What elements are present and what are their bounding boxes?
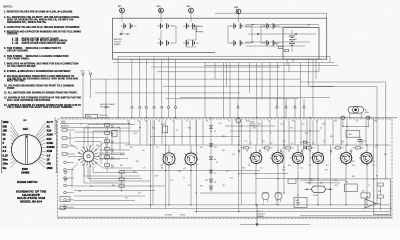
svg-text:Q1: Q1 xyxy=(161,168,163,170)
svg-text:X100: X100 xyxy=(47,133,54,137)
svg-text:C6: C6 xyxy=(176,130,178,132)
contact circle 4 xyxy=(64,184,74,187)
wire y67 xyxy=(151,66,280,68)
battery BT4a xyxy=(231,23,247,29)
svg-text:R28: R28 xyxy=(188,128,191,130)
wire v x284 xyxy=(283,120,285,193)
svg-text:R83: R83 xyxy=(205,180,208,182)
svg-text:R88: R88 xyxy=(352,176,355,178)
svg-text:R50: R50 xyxy=(325,170,328,172)
svg-text:BT2: BT2 xyxy=(157,6,160,8)
wire pcb v x232 xyxy=(231,120,233,145)
svg-text:GROUPS:: GROUPS: xyxy=(7,34,18,36)
label bottom center xyxy=(165,214,186,217)
wire bus y209 xyxy=(58,208,393,210)
dual diode pair 1 xyxy=(262,192,269,205)
wire drop x139 xyxy=(139,57,141,105)
svg-text:C24: C24 xyxy=(334,180,337,182)
switch press-to-test xyxy=(86,114,98,118)
battery sub-box xyxy=(283,28,319,60)
wire pcb v x182 xyxy=(181,120,183,145)
svg-text:R59: R59 xyxy=(335,185,338,187)
svg-text:C11: C11 xyxy=(300,168,303,170)
wire bt1 drop xyxy=(121,30,123,34)
svg-text:R34: R34 xyxy=(120,154,123,156)
svg-text:C7: C7 xyxy=(270,133,272,135)
rotary switch labels right xyxy=(35,120,55,170)
battery BT1 minus lead xyxy=(119,33,130,35)
wire Q leg x191 xyxy=(190,165,192,205)
wire bus y224 xyxy=(240,224,310,226)
svg-text:R80: R80 xyxy=(112,185,115,187)
svg-text:C18: C18 xyxy=(308,165,311,167)
junction circle right of meter xyxy=(367,116,370,119)
svg-text:560: 560 xyxy=(133,171,136,173)
resistor R55 xyxy=(346,131,360,138)
svg-text:15m: 15m xyxy=(3,162,9,166)
resistor above Q x358 xyxy=(353,147,364,149)
wire pcb v x162 xyxy=(161,120,163,145)
wire bt5 col xyxy=(261,26,265,43)
wire left y196 xyxy=(74,195,145,197)
resistor bottom left 2 xyxy=(60,206,65,209)
svg-text:AC V: AC V xyxy=(47,120,54,124)
wire Q leg x346 xyxy=(345,165,347,205)
svg-text:D4: D4 xyxy=(214,131,216,133)
meter M xyxy=(348,106,369,113)
terminal arrow x175 xyxy=(174,105,177,118)
notes text block xyxy=(3,5,82,110)
svg-text:6: 6 xyxy=(96,124,97,126)
svg-text:PRESS TO: PRESS TO xyxy=(100,115,109,117)
svg-text:C12: C12 xyxy=(375,147,378,149)
svg-text:Q5: Q5 xyxy=(292,155,294,157)
svg-text:R56: R56 xyxy=(303,141,306,143)
wire drop2 x256 xyxy=(256,63,258,118)
svg-text:R35: R35 xyxy=(136,161,139,163)
svg-text:27: 27 xyxy=(368,185,370,187)
wire left y186 xyxy=(74,185,165,187)
wire pcb v x147 xyxy=(146,120,148,145)
svg-text:R46: R46 xyxy=(242,168,245,170)
wire v x310 xyxy=(309,120,311,185)
svg-text:IC1: IC1 xyxy=(366,197,369,199)
svg-text:30K: 30K xyxy=(111,159,114,161)
wire pcb v x250 xyxy=(249,120,251,145)
svg-text:R26: R26 xyxy=(134,133,137,135)
diode ZD3 xyxy=(209,157,213,160)
svg-text:2N: 2N xyxy=(288,151,290,153)
svg-text:R11: R11 xyxy=(111,125,114,127)
wire v x385 xyxy=(385,118,387,179)
battery BT5a xyxy=(264,23,280,29)
contact circle 5 xyxy=(64,191,74,194)
svg-text:R33: R33 xyxy=(305,133,308,135)
wire pcb v x317 xyxy=(316,120,318,145)
wire Q leg x298 xyxy=(297,165,299,205)
svg-text:R74: R74 xyxy=(288,165,291,167)
wire drop x131 xyxy=(131,59,133,104)
wire drop2 x223 xyxy=(222,63,224,118)
wire y145 xyxy=(125,144,390,146)
wire v x165 xyxy=(165,120,167,209)
rotary OHM label xyxy=(21,167,29,175)
resistor R30 xyxy=(161,124,168,133)
resistor R61 xyxy=(361,193,370,198)
svg-text:P1: P1 xyxy=(376,176,378,178)
svg-text:R52: R52 xyxy=(352,161,355,163)
svg-text:R57: R57 xyxy=(308,183,311,185)
svg-text:3 - 99 PARTS OTHER THAN CI: 3 - 99 PARTS OTHER THAN CIRCUIT BOARD xyxy=(12,42,66,45)
resistor R201 xyxy=(276,44,283,48)
svg-text:R27: R27 xyxy=(152,128,155,130)
svg-text:X1K: X1K xyxy=(47,137,52,141)
svg-text:50m: 50m xyxy=(3,158,9,162)
svg-text:C10: C10 xyxy=(260,168,263,170)
svg-text:R71: R71 xyxy=(226,171,229,173)
wire drop2 x289 xyxy=(288,63,290,72)
svg-text:R12: R12 xyxy=(111,133,114,135)
wire v x330 xyxy=(330,145,332,205)
terminal arrow x131 xyxy=(131,105,134,118)
resistor left col 2 xyxy=(62,137,75,139)
svg-text:C9: C9 xyxy=(156,147,158,149)
wire Q leg x278 xyxy=(277,165,279,205)
wire bt45 join xyxy=(246,26,253,43)
wire drop2 x277 xyxy=(277,63,279,106)
wire Q leg x169 xyxy=(168,165,170,205)
svg-text:15: 15 xyxy=(3,137,6,141)
battery BT2b xyxy=(157,40,173,46)
resistor chain B5 xyxy=(105,156,114,164)
resistor above Q x338 xyxy=(333,147,344,149)
label test prod xyxy=(251,122,258,128)
svg-text:TEST: TEST xyxy=(251,122,255,124)
svg-text:C7: C7 xyxy=(316,121,318,123)
svg-text:25K: 25K xyxy=(111,151,114,153)
battery BT5b xyxy=(264,40,280,46)
wire wafer right y150 xyxy=(99,149,130,151)
battery test box xyxy=(294,197,307,207)
diode ZD4 xyxy=(209,170,213,173)
svg-text:R45: R45 xyxy=(222,150,225,152)
resistor above Q x246 xyxy=(241,147,252,149)
svg-text:5m: 5m xyxy=(3,166,7,170)
dual diode pair 2 xyxy=(275,192,282,205)
rotary switch labels left xyxy=(3,120,19,170)
svg-text:BOARD: BOARD xyxy=(114,43,121,46)
svg-text:35K: 35K xyxy=(111,167,114,169)
capacitor mark x267 xyxy=(259,142,273,154)
svg-text:R1: R1 xyxy=(276,44,278,46)
wire bus y65 xyxy=(205,64,338,66)
wire pcb v x129 xyxy=(128,120,130,145)
svg-text:R68: R68 xyxy=(178,171,181,173)
transistor Q2 xyxy=(183,150,198,169)
wire v x196 xyxy=(195,120,197,211)
svg-text:BT1: BT1 xyxy=(118,6,121,8)
svg-text:THE FRONT PANEL.: THE FRONT PANEL. xyxy=(7,57,30,60)
svg-text:500: 500 xyxy=(3,124,8,128)
wire bus y62 xyxy=(113,62,334,64)
wire bt2 link xyxy=(158,30,161,39)
wire pcb v x333 xyxy=(332,120,334,145)
wire bus y212 xyxy=(195,211,390,213)
svg-text:X10K: X10K xyxy=(47,141,54,145)
wire wafer feed y137 xyxy=(75,138,106,161)
contact circle 2 xyxy=(64,168,74,171)
wire y170 xyxy=(120,170,260,172)
wire y82 xyxy=(300,82,386,118)
wire wafer feed y123 xyxy=(60,123,130,125)
svg-text:1500: 1500 xyxy=(47,166,53,170)
svg-text:Q6: Q6 xyxy=(312,155,314,157)
wire bus y56 xyxy=(118,57,330,63)
wire v x238 xyxy=(238,120,240,211)
wire y178 xyxy=(300,178,374,180)
terminal arrow x139 xyxy=(139,105,142,118)
wire drop2 x313 xyxy=(312,59,314,118)
wire left y200 xyxy=(74,200,135,202)
potentiometer hexagon xyxy=(304,186,333,197)
svg-text:R43 1K: R43 1K xyxy=(313,195,319,197)
rotary OFF label xyxy=(23,120,29,131)
svg-text:BT4: BT4 xyxy=(235,6,238,9)
transistor Q7 xyxy=(338,150,352,166)
wire y71 xyxy=(157,63,319,72)
wire pcb v x278 xyxy=(277,120,279,145)
svg-text:OHMS: OHMS xyxy=(21,170,29,174)
rotary left bracket xyxy=(1,121,2,173)
svg-text:R77: R77 xyxy=(326,165,329,167)
svg-text:C20: C20 xyxy=(372,165,375,167)
wire pcb v x174 xyxy=(173,120,175,145)
contact circle 6 xyxy=(64,199,74,202)
wire bus y205 xyxy=(60,204,390,206)
wire pcb v x196 xyxy=(195,120,197,145)
svg-text:05: 05 xyxy=(356,121,358,123)
svg-text:REFERENCE NO., WHICH ARE 5%.: REFERENCE NO., WHICH ARE 5%. xyxy=(7,21,47,24)
terminal V xyxy=(89,71,92,99)
transistor Q6 xyxy=(310,150,324,166)
resistor R202 xyxy=(284,49,289,51)
wire Q leg x318 xyxy=(317,165,319,205)
junction ring xyxy=(236,118,241,123)
svg-text:C8: C8 xyxy=(320,128,322,130)
svg-text:D7: D7 xyxy=(214,173,216,175)
wire pcb v x313 xyxy=(312,120,314,145)
svg-text:D6: D6 xyxy=(214,159,216,161)
svg-text:R14: R14 xyxy=(246,121,249,123)
resistor chain B4 xyxy=(105,148,114,156)
wire Q top x367 xyxy=(366,145,368,153)
svg-text:C1: C1 xyxy=(127,121,129,123)
diode ZD6 xyxy=(209,186,213,189)
resistor chain A2 xyxy=(119,178,124,185)
wire y79 xyxy=(91,78,300,80)
wire pcb v x257 xyxy=(256,120,258,145)
label wire codes xyxy=(100,103,116,108)
svg-text:R3: R3 xyxy=(145,121,147,123)
svg-text:R58: R58 xyxy=(320,183,323,185)
wire row2 xyxy=(246,26,311,28)
wire y86 xyxy=(310,87,377,118)
svg-text:R41: R41 xyxy=(130,147,133,149)
diode ZD2 xyxy=(209,144,213,147)
svg-text:220: 220 xyxy=(232,154,235,156)
svg-text:Q4: Q4 xyxy=(271,155,273,157)
svg-text:R14: R14 xyxy=(111,149,114,151)
bracket connector xyxy=(192,26,203,32)
resistor chain A3 xyxy=(119,185,124,192)
wire pcb v x140 xyxy=(139,120,141,145)
wire wafer feed y127 xyxy=(60,128,120,151)
terminal arrow r x286 xyxy=(285,99,288,118)
wire midrow xyxy=(248,33,316,35)
wire drop x175 xyxy=(175,59,177,104)
svg-text:TO THE CIRCUIT BOARD.: TO THE CIRCUIT BOARD. xyxy=(7,65,36,68)
wire drop2 x284 xyxy=(283,63,285,118)
wire pcb v x289 xyxy=(288,120,290,145)
svg-text:Q1: Q1 xyxy=(163,155,165,157)
chassis ground arrow xyxy=(255,205,258,227)
svg-text:C28: C28 xyxy=(78,191,81,193)
svg-text:BT3: BT3 xyxy=(187,6,190,8)
wire drop x118 xyxy=(117,57,119,105)
wire pcb top bus xyxy=(60,117,397,119)
resistor above Q x267 xyxy=(262,147,273,149)
svg-text:R65: R65 xyxy=(120,165,123,167)
circuit board outline xyxy=(58,119,393,219)
wire drop x146 xyxy=(145,59,147,104)
svg-text:Q2: Q2 xyxy=(185,155,187,157)
svg-text:R94: R94 xyxy=(90,186,93,188)
svg-text:11. ALL SWITCHES ARE SHOWN AS: 11. ALL SWITCHES ARE SHOWN AS VIEWED FRO… xyxy=(4,92,78,95)
svg-text:50: 50 xyxy=(3,133,6,137)
svg-text:R38: R38 xyxy=(200,186,203,188)
wire pcb v x239 xyxy=(238,120,240,145)
svg-text:150: 150 xyxy=(3,129,8,133)
terminal B xyxy=(157,6,163,22)
svg-text:ZD1: ZD1 xyxy=(214,147,217,149)
wire v x106 xyxy=(105,79,108,118)
resistor chain B6 xyxy=(105,164,114,172)
svg-text:1500: 1500 xyxy=(22,167,28,171)
contact circle 3 xyxy=(64,177,74,180)
wire y86b xyxy=(163,85,334,87)
wire v x153 xyxy=(152,120,154,205)
svg-text:Q3: Q3 xyxy=(250,155,252,157)
svg-text:R52: R52 xyxy=(262,141,265,143)
svg-text:CW; A VIEW FROM THE SHAFT SIDE: CW; A VIEW FROM THE SHAFT SIDE OF EACH T… xyxy=(7,106,74,109)
svg-text:15K: 15K xyxy=(111,135,114,137)
wire y131 xyxy=(230,130,320,132)
svg-text:3. CAPACITOR VALUES ARE IN uF: 3. CAPACITOR VALUES ARE IN uF UNLESS MAR… xyxy=(4,26,80,29)
junction circle left of meter xyxy=(341,116,344,119)
svg-text:POINT.: POINT. xyxy=(7,88,15,90)
terminal arrow r x238 xyxy=(237,99,240,118)
wires wafer web xyxy=(68,125,142,189)
battery board label xyxy=(114,38,123,46)
svg-text:D8: D8 xyxy=(214,182,216,184)
resistor bottom left 1 xyxy=(60,197,70,202)
box right xyxy=(374,179,391,215)
svg-text:X10: X10 xyxy=(47,129,52,133)
svg-text:R60: R60 xyxy=(345,182,348,184)
wire wafer low y171 xyxy=(90,167,150,182)
terminal arrow r x304 xyxy=(303,99,306,118)
resistor R49 xyxy=(288,179,296,183)
wire pcb v x203 xyxy=(202,120,204,145)
wire drop x168 xyxy=(168,57,170,105)
wire Q top x278 xyxy=(277,145,279,153)
wire Q top x169 xyxy=(168,145,170,153)
svg-text:R31: R31 xyxy=(253,128,256,130)
wire right loop xyxy=(326,13,328,59)
terminal arrow x146 xyxy=(145,105,148,118)
svg-text:NOTES:: NOTES: xyxy=(3,5,13,9)
svg-text:R86: R86 xyxy=(310,180,313,182)
svg-text:22: 22 xyxy=(137,121,139,123)
svg-text:470: 470 xyxy=(302,124,305,126)
svg-text:C8: C8 xyxy=(143,168,145,170)
svg-text:R48: R48 xyxy=(282,170,285,172)
svg-text:R28: R28 xyxy=(334,121,337,123)
svg-text:C22: C22 xyxy=(188,185,191,187)
terminal A xyxy=(118,6,124,22)
wire diode col xyxy=(210,118,212,192)
capacitor under meter xyxy=(358,136,367,145)
wire arrowheads row1 xyxy=(252,24,310,43)
wire v x377 xyxy=(376,118,378,205)
svg-text:R29: R29 xyxy=(222,136,225,138)
wire pcb v x262 xyxy=(261,120,263,145)
resistor left col 3 xyxy=(62,145,75,147)
terminal arrow r x295 xyxy=(294,99,297,118)
svg-text:R40: R40 xyxy=(230,178,233,180)
svg-text:20K: 20K xyxy=(111,143,114,145)
terminal arrow r x277 xyxy=(276,99,279,118)
wire drop2 x215 xyxy=(214,63,216,80)
wire y180 xyxy=(300,179,345,181)
svg-text:R62: R62 xyxy=(384,154,387,156)
wire pcb bottom inner xyxy=(58,216,393,218)
wire Q top x256 xyxy=(255,145,257,153)
wire Q leg x256 xyxy=(255,165,257,205)
svg-text:10: 10 xyxy=(228,121,230,123)
wire pcb v x270 xyxy=(269,120,271,145)
diode ZD1 xyxy=(209,126,213,129)
wire wafer feed y141 xyxy=(75,142,101,165)
wire row4 xyxy=(246,45,306,47)
svg-text:R36: R36 xyxy=(155,176,158,178)
wire Q top x318 xyxy=(317,145,319,153)
svg-text:R9: R9 xyxy=(206,121,208,123)
wire drop x161 xyxy=(161,59,163,104)
svg-text:COM: COM xyxy=(80,71,85,73)
svg-text:R30: R30 xyxy=(161,124,164,126)
reference designator labels xyxy=(78,127,378,200)
svg-text:0.15: 0.15 xyxy=(3,153,9,157)
range switch caption xyxy=(17,180,37,184)
svg-text:B: B xyxy=(160,9,162,13)
wire pcb v x307 xyxy=(306,120,308,145)
resistor network box xyxy=(112,130,117,137)
svg-text:C2: C2 xyxy=(172,121,174,123)
svg-text:C4: C4 xyxy=(118,127,120,129)
svg-text:47: 47 xyxy=(186,121,188,123)
svg-text:1. RESISTOR VALUES ARE IN OHM: 1. RESISTOR VALUES ARE IN OHMS (K=1,000,… xyxy=(4,10,73,13)
